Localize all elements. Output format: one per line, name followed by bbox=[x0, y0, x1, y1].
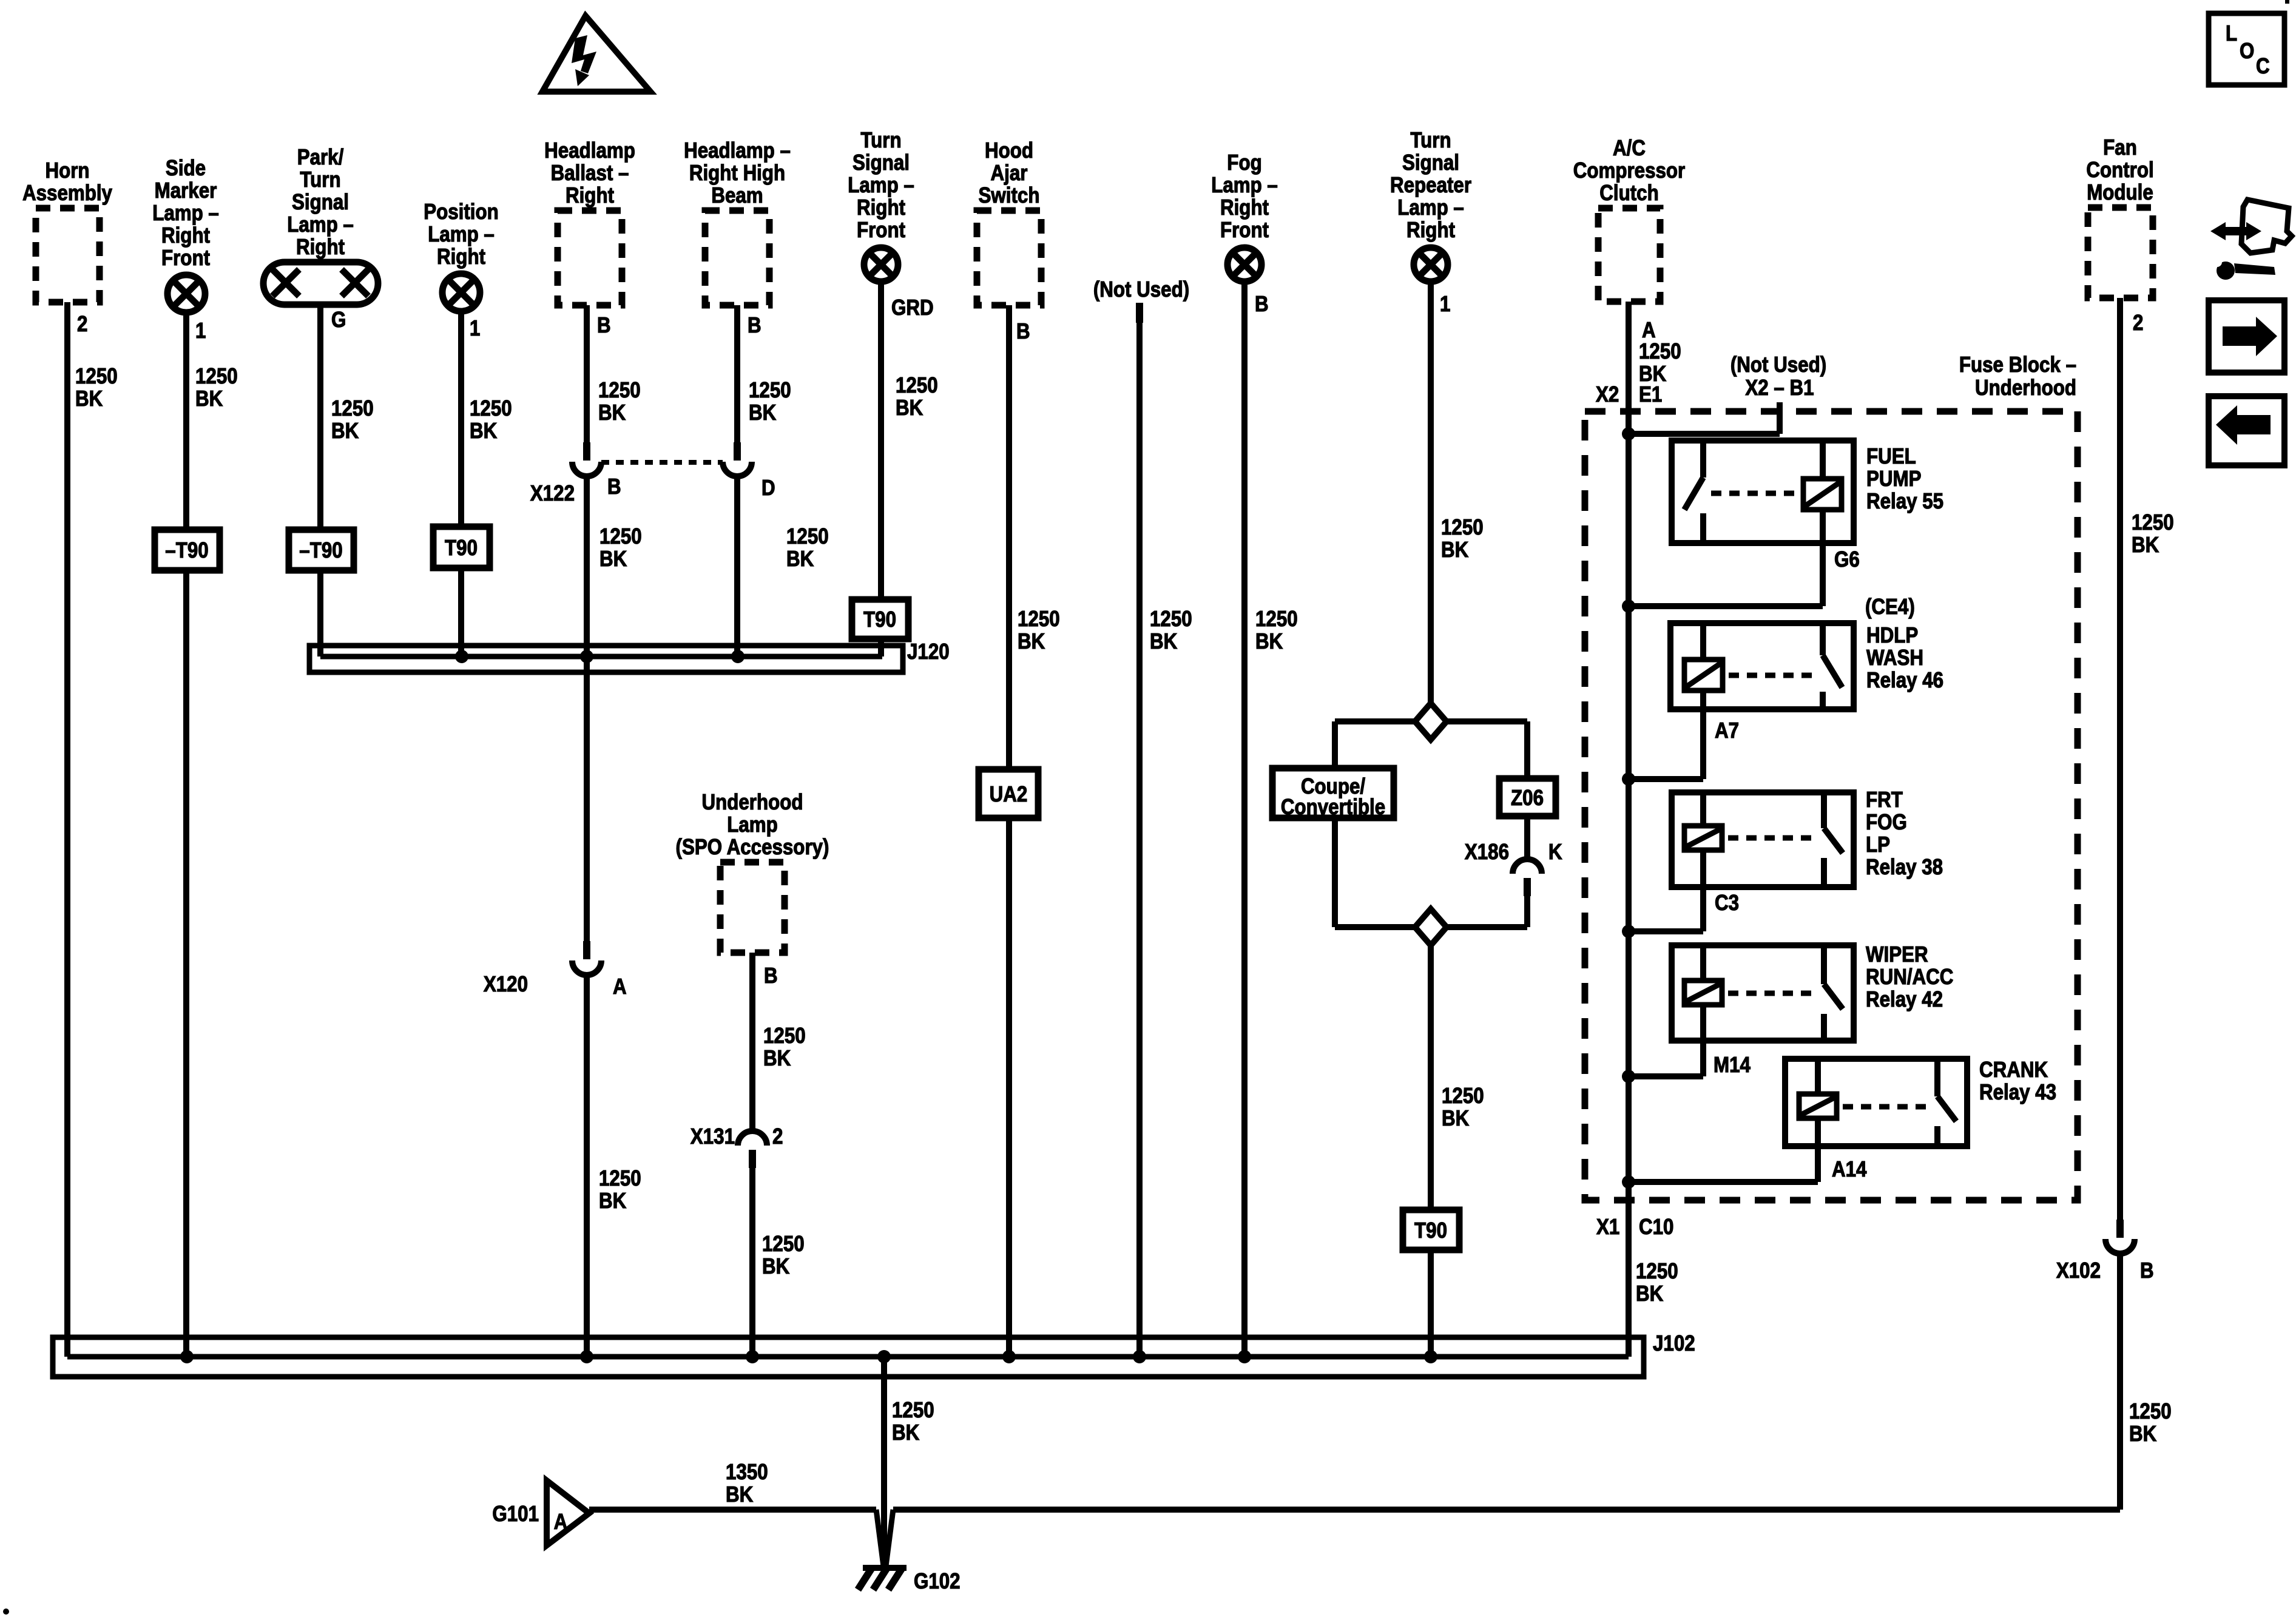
svg-text:WASH: WASH bbox=[1866, 646, 1923, 670]
svg-text:BK: BK bbox=[896, 396, 923, 420]
svg-text:BK: BK bbox=[2132, 533, 2159, 558]
svg-text:1250: 1250 bbox=[1636, 1259, 1678, 1284]
svg-text:B: B bbox=[597, 313, 611, 338]
svg-text:Right: Right bbox=[857, 195, 905, 220]
svg-text:Clutch: Clutch bbox=[1599, 181, 1658, 206]
svg-text:BK: BK bbox=[2129, 1422, 2157, 1447]
svg-text:Control: Control bbox=[2086, 158, 2153, 183]
svg-text:BK: BK bbox=[786, 547, 814, 572]
svg-text:1: 1 bbox=[195, 319, 206, 343]
svg-text:1250: 1250 bbox=[1018, 607, 1060, 632]
svg-text:BK: BK bbox=[762, 1254, 790, 1279]
svg-text:Relay 43: Relay 43 bbox=[1979, 1080, 2056, 1105]
svg-text:Lamp –: Lamp – bbox=[1397, 195, 1464, 220]
svg-text:1250: 1250 bbox=[762, 1232, 805, 1257]
svg-text:A14: A14 bbox=[1832, 1157, 1867, 1182]
svg-text:Convertible: Convertible bbox=[1281, 795, 1385, 820]
svg-text:C10: C10 bbox=[1639, 1215, 1673, 1240]
svg-text:C3: C3 bbox=[1715, 891, 1739, 916]
svg-text:Horn: Horn bbox=[45, 158, 89, 183]
svg-text:1250: 1250 bbox=[470, 396, 512, 421]
svg-text:BK: BK bbox=[1441, 538, 1469, 562]
svg-text:BK: BK bbox=[1442, 1106, 1470, 1131]
svg-text:2: 2 bbox=[2133, 311, 2143, 336]
svg-text:D: D bbox=[761, 476, 775, 501]
svg-text:(SPO Accessory): (SPO Accessory) bbox=[676, 835, 829, 860]
svg-text:(CE4): (CE4) bbox=[1865, 595, 1915, 619]
svg-text:X2: X2 bbox=[1596, 382, 1619, 407]
svg-text:X2 – B1: X2 – B1 bbox=[1745, 376, 1814, 400]
svg-text:A7: A7 bbox=[1715, 718, 1739, 743]
svg-text:X120: X120 bbox=[484, 972, 528, 997]
svg-text:M14: M14 bbox=[1714, 1053, 1751, 1078]
svg-text:BK: BK bbox=[195, 387, 223, 411]
svg-text:X102: X102 bbox=[2056, 1258, 2101, 1283]
svg-text:BK: BK bbox=[749, 400, 777, 425]
svg-text:Beam: Beam bbox=[711, 183, 763, 208]
svg-text:Hood: Hood bbox=[985, 138, 1033, 163]
svg-text:1250: 1250 bbox=[749, 378, 791, 403]
svg-text:Signal: Signal bbox=[292, 190, 349, 215]
svg-text:Front: Front bbox=[857, 218, 905, 243]
svg-text:Relay 38: Relay 38 bbox=[1866, 855, 1943, 880]
svg-text:Lamp –: Lamp – bbox=[428, 222, 495, 247]
svg-text:G101: G101 bbox=[492, 1502, 539, 1527]
svg-text:Park/: Park/ bbox=[297, 145, 344, 170]
svg-text:BK: BK bbox=[470, 419, 498, 444]
svg-text:B: B bbox=[764, 964, 778, 988]
svg-text:1250: 1250 bbox=[598, 378, 641, 403]
svg-text:Fog: Fog bbox=[1227, 150, 1261, 175]
svg-text:Turn: Turn bbox=[1410, 128, 1451, 153]
svg-text:–T90: –T90 bbox=[299, 538, 342, 563]
svg-text:T90: T90 bbox=[445, 536, 478, 561]
svg-text:BK: BK bbox=[1255, 629, 1283, 654]
svg-text:X186: X186 bbox=[1465, 840, 1509, 865]
svg-text:B: B bbox=[748, 313, 761, 338]
svg-text:BK: BK bbox=[726, 1482, 754, 1507]
svg-text:BK: BK bbox=[1150, 629, 1178, 654]
svg-text:Position: Position bbox=[424, 200, 499, 224]
svg-text:1250: 1250 bbox=[786, 524, 829, 549]
svg-text:BK: BK bbox=[75, 387, 103, 411]
svg-text:1: 1 bbox=[470, 316, 480, 341]
svg-text:1250: 1250 bbox=[1639, 339, 1681, 364]
svg-text:1250: 1250 bbox=[75, 364, 118, 389]
svg-text:Module: Module bbox=[2087, 180, 2153, 205]
svg-text:Ballast –: Ballast – bbox=[551, 161, 629, 186]
svg-text:2: 2 bbox=[77, 312, 87, 337]
svg-text:Right: Right bbox=[1406, 218, 1455, 243]
svg-text:1250: 1250 bbox=[331, 396, 374, 421]
svg-text:2: 2 bbox=[772, 1124, 783, 1149]
svg-text:Signal: Signal bbox=[853, 150, 910, 175]
svg-text:B: B bbox=[2140, 1258, 2154, 1283]
svg-text:Right High: Right High bbox=[689, 161, 785, 186]
svg-text:B: B bbox=[1255, 292, 1269, 317]
svg-text:G102: G102 bbox=[914, 1569, 961, 1594]
svg-text:WIPER: WIPER bbox=[1866, 942, 1928, 967]
svg-text:A/C: A/C bbox=[1613, 136, 1646, 161]
svg-text:(Not Used): (Not Used) bbox=[1093, 277, 1189, 302]
svg-text:Compressor: Compressor bbox=[1573, 158, 1685, 183]
svg-text:Headlamp: Headlamp bbox=[544, 138, 635, 163]
svg-text:Relay 55: Relay 55 bbox=[1866, 489, 1943, 514]
svg-text:CRANK: CRANK bbox=[1979, 1058, 2048, 1082]
svg-text:X1: X1 bbox=[1596, 1215, 1619, 1240]
svg-text:FUEL: FUEL bbox=[1866, 444, 1916, 469]
svg-text:Right: Right bbox=[437, 245, 485, 269]
svg-text:J102: J102 bbox=[1653, 1331, 1695, 1356]
svg-text:1250: 1250 bbox=[1255, 607, 1298, 632]
svg-text:T90: T90 bbox=[1414, 1218, 1447, 1243]
svg-text:Right: Right bbox=[1220, 195, 1269, 220]
svg-text:O: O bbox=[2240, 39, 2254, 64]
svg-text:X131: X131 bbox=[690, 1124, 735, 1149]
svg-text:BK: BK bbox=[599, 1189, 627, 1214]
svg-text:Front: Front bbox=[1220, 218, 1269, 243]
svg-text:Right: Right bbox=[296, 235, 345, 260]
svg-text:Lamp: Lamp bbox=[727, 812, 778, 837]
svg-text:Marker: Marker bbox=[155, 178, 217, 203]
svg-text:1250: 1250 bbox=[1441, 515, 1484, 540]
svg-text:Relay 46: Relay 46 bbox=[1866, 668, 1943, 693]
svg-text:Right: Right bbox=[566, 183, 614, 208]
svg-text:Underhood: Underhood bbox=[702, 790, 803, 815]
svg-text:G6: G6 bbox=[1834, 547, 1860, 572]
svg-text:GRD: GRD bbox=[891, 295, 934, 320]
svg-text:E1: E1 bbox=[1639, 382, 1662, 407]
svg-text:X122: X122 bbox=[530, 481, 575, 506]
svg-text:Signal: Signal bbox=[1402, 150, 1459, 175]
svg-text:Right: Right bbox=[161, 223, 210, 248]
svg-text:1250: 1250 bbox=[896, 373, 938, 398]
svg-text:K: K bbox=[1548, 840, 1562, 865]
svg-text:1250: 1250 bbox=[763, 1024, 806, 1048]
svg-text:Side: Side bbox=[166, 156, 206, 181]
svg-text:FRT: FRT bbox=[1866, 788, 1903, 812]
svg-text:G: G bbox=[331, 308, 346, 333]
svg-text:FOG: FOG bbox=[1866, 810, 1907, 835]
svg-text:Relay 42: Relay 42 bbox=[1866, 987, 1943, 1012]
svg-text:1250: 1250 bbox=[1150, 607, 1192, 632]
svg-text:A: A bbox=[554, 1510, 568, 1534]
svg-text:BK: BK bbox=[1018, 629, 1045, 654]
svg-text:1250: 1250 bbox=[599, 1166, 641, 1191]
svg-text:Headlamp –: Headlamp – bbox=[684, 138, 791, 163]
svg-text:Fuse Block –: Fuse Block – bbox=[1959, 353, 2076, 377]
svg-text:B: B bbox=[1016, 319, 1030, 344]
svg-text:BK: BK bbox=[1636, 1281, 1664, 1306]
svg-text:BK: BK bbox=[331, 419, 359, 444]
svg-text:Turn: Turn bbox=[860, 128, 901, 153]
svg-text:A: A bbox=[613, 974, 627, 999]
svg-text:1250: 1250 bbox=[195, 364, 238, 389]
svg-text:1250: 1250 bbox=[1442, 1084, 1484, 1109]
svg-text:–T90: –T90 bbox=[165, 538, 208, 563]
svg-text:Ajar: Ajar bbox=[991, 161, 1028, 186]
svg-text:Underhood: Underhood bbox=[1975, 376, 2076, 400]
svg-text:Repeater: Repeater bbox=[1390, 173, 1471, 198]
svg-text:Lamp –: Lamp – bbox=[848, 173, 914, 198]
svg-text:1: 1 bbox=[1440, 292, 1450, 317]
svg-text:Z06: Z06 bbox=[1511, 786, 1544, 811]
svg-text:BK: BK bbox=[598, 400, 626, 425]
svg-text:T90: T90 bbox=[863, 607, 896, 632]
svg-text:BK: BK bbox=[763, 1046, 791, 1071]
svg-text:1250: 1250 bbox=[2132, 510, 2174, 535]
svg-text:RUN/ACC: RUN/ACC bbox=[1866, 965, 1953, 990]
svg-text:J120: J120 bbox=[907, 640, 950, 664]
svg-text:L: L bbox=[2226, 21, 2237, 46]
svg-text:(Not Used): (Not Used) bbox=[1730, 353, 1826, 377]
svg-text:1250: 1250 bbox=[2129, 1399, 2172, 1424]
svg-text:B: B bbox=[607, 474, 621, 499]
svg-text:Front: Front bbox=[161, 246, 210, 271]
svg-text:PUMP: PUMP bbox=[1866, 467, 1921, 491]
svg-text:Turn: Turn bbox=[300, 167, 340, 192]
svg-text:Lamp –: Lamp – bbox=[1211, 173, 1278, 198]
svg-text:Lamp –: Lamp – bbox=[152, 201, 219, 226]
svg-text:UA2: UA2 bbox=[990, 782, 1028, 807]
svg-text:1350: 1350 bbox=[726, 1460, 768, 1485]
svg-text:1250: 1250 bbox=[892, 1398, 934, 1423]
svg-text:1250: 1250 bbox=[599, 524, 642, 549]
svg-text:LP: LP bbox=[1866, 832, 1890, 857]
svg-text:BK: BK bbox=[892, 1420, 920, 1445]
svg-text:C: C bbox=[2256, 54, 2270, 79]
svg-text:BK: BK bbox=[599, 547, 627, 572]
svg-text:HDLP: HDLP bbox=[1866, 623, 1918, 648]
svg-text:Switch: Switch bbox=[979, 183, 1040, 208]
svg-text:Lamp –: Lamp – bbox=[287, 212, 354, 237]
svg-text:Fan: Fan bbox=[2103, 135, 2137, 160]
svg-text:Assembly: Assembly bbox=[22, 181, 112, 206]
